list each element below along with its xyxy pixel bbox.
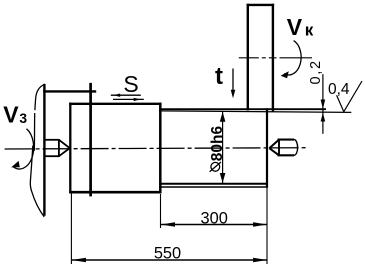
svg-text:550: 550: [154, 245, 181, 263]
svg-text:0,2: 0,2: [308, 59, 324, 84]
svg-text:S: S: [123, 71, 138, 97]
svg-text:V: V: [287, 14, 303, 40]
svg-text:к: к: [305, 20, 314, 39]
svg-text:3: 3: [19, 111, 27, 126]
svg-text:t: t: [215, 63, 223, 90]
svg-text:V: V: [3, 102, 19, 128]
svg-text:0,4: 0,4: [328, 81, 350, 98]
svg-text:300: 300: [201, 210, 228, 228]
svg-text:80h6: 80h6: [209, 125, 226, 161]
